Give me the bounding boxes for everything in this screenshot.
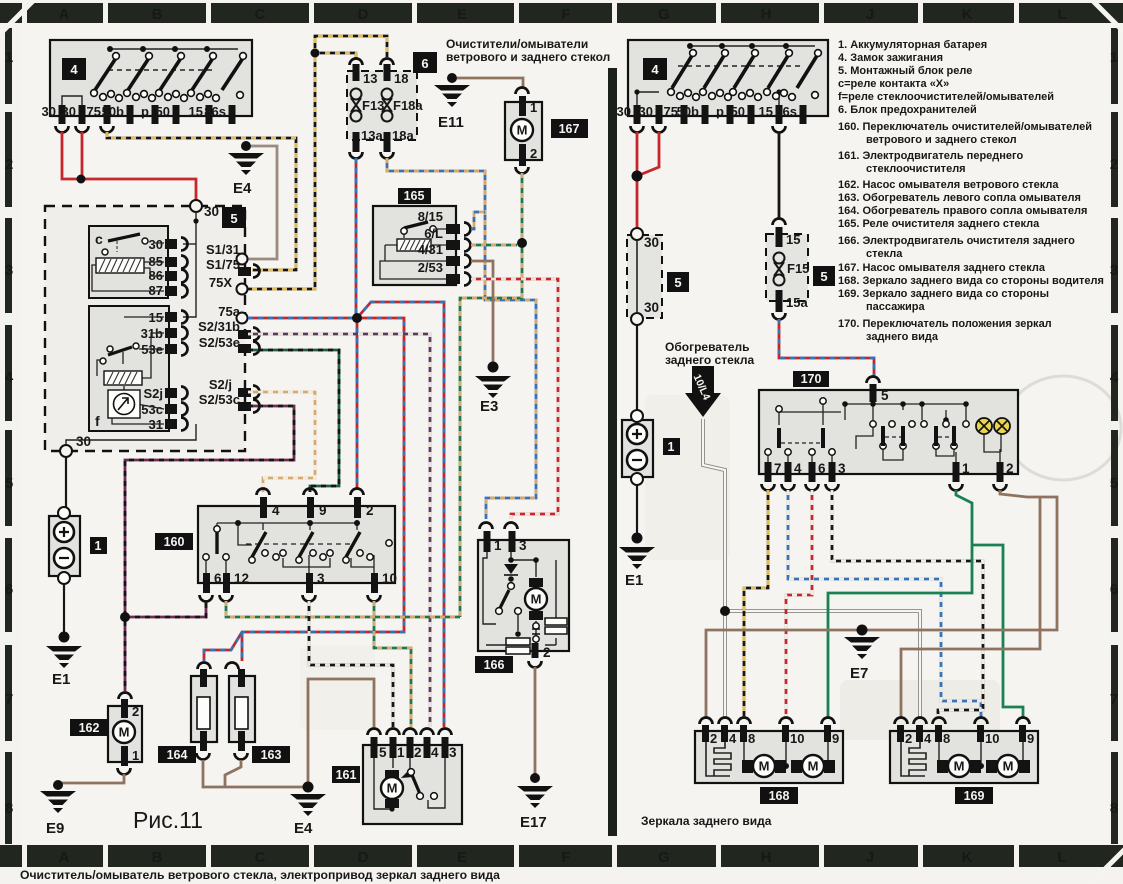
heated rear window arrow 10/L4 (685, 366, 721, 417)
internals (380, 229, 448, 279)
svg-text:S2j: S2j (143, 386, 163, 401)
svg-text:1. Аккумуляторная батарея: 1. Аккумуляторная батарея (838, 39, 987, 51)
svg-text:160: 160 (164, 535, 185, 549)
svg-text:8: 8 (5, 800, 13, 817)
svg-text:D: D (358, 849, 369, 866)
svg-text:F15: F15 (787, 261, 809, 276)
battery 1 (right) (622, 410, 680, 485)
svg-text:30: 30 (617, 104, 631, 119)
svg-text:4: 4 (5, 369, 14, 386)
wire 160 pin12 green/tan to 6/L node (226, 601, 460, 617)
svg-text:1: 1 (494, 538, 502, 553)
wire 167 pin2 green/tan down to 6/L then 160 pin10 (460, 173, 522, 617)
wire 75 black/yellow (107, 132, 296, 270)
svg-text:15a: 15a (786, 295, 808, 310)
fuse F18a (384, 64, 391, 81)
svg-text:8: 8 (943, 731, 950, 746)
svg-text:2: 2 (530, 146, 537, 161)
svg-text:2/53: 2/53 (418, 260, 443, 275)
relay c box (89, 226, 168, 298)
fuse F13 (353, 64, 360, 81)
svg-text:Обогреватель: Обогреватель (665, 340, 750, 354)
svg-text:164: 164 (167, 748, 188, 762)
driver mirror 168 (695, 718, 843, 805)
svg-text:8: 8 (748, 731, 755, 746)
wire 162 to E9 brown (58, 774, 124, 789)
terminals (446, 224, 460, 284)
wire 170 pin2 brown to mirrors pin2 (706, 490, 1057, 718)
svg-text:50b: 50b (102, 104, 124, 119)
svg-text:2: 2 (132, 704, 139, 719)
svg-text:Очистители/омыватели: Очистители/омыватели (446, 37, 588, 51)
svg-text:J: J (866, 6, 874, 23)
svg-text:Рис.11: Рис.11 (133, 807, 203, 833)
svg-text:E9: E9 (46, 820, 64, 837)
svg-text:6: 6 (5, 581, 13, 598)
ground E4 bottom (290, 794, 326, 837)
rear wiper relay 165 (373, 188, 471, 286)
svg-text:169: 169 (964, 789, 985, 803)
ground E17 (517, 773, 553, 831)
svg-text:5: 5 (1110, 475, 1118, 492)
svg-text:f: f (95, 413, 100, 429)
svg-text:6: 6 (818, 461, 826, 476)
svg-text:163. Обогреватель левого сопла: 163. Обогреватель левого сопла омывателя (838, 192, 1081, 204)
svg-text:170. Переключатель положения з: 170. Переключатель положения зеркал (838, 318, 1052, 330)
svg-text:S1/75: S1/75 (206, 257, 240, 272)
wire 30 from block5 to battery (65, 457, 67, 508)
svg-text:5: 5 (674, 275, 681, 290)
svg-text:1: 1 (1110, 49, 1118, 66)
svg-text:2: 2 (1006, 461, 1014, 476)
wire brown E11 to 167 (457, 78, 523, 88)
svg-text:S1/31: S1/31 (206, 242, 240, 257)
front wiper motor 161 (332, 729, 462, 825)
bottom terminals (765, 462, 1004, 482)
svg-text:2: 2 (5, 156, 13, 173)
wire 30 red from switch 4 (62, 132, 196, 201)
svg-text:E4: E4 (233, 180, 252, 197)
svg-text:L: L (1057, 849, 1066, 866)
wire 30 red (right) (637, 132, 659, 228)
svg-text:ветрового и заднего стекол: ветрового и заднего стекол (866, 134, 1017, 146)
svg-text:1: 1 (132, 748, 139, 763)
ignition switch 4 (right) (617, 40, 828, 133)
svg-text:E11: E11 (438, 114, 464, 131)
wire 166 pin2 brown to E17 (534, 667, 537, 776)
svg-text:4: 4 (729, 731, 737, 746)
svg-text:9: 9 (832, 731, 839, 746)
relay c internals (108, 234, 140, 241)
svg-text:168: 168 (769, 789, 790, 803)
svg-text:6/L: 6/L (424, 226, 443, 241)
svg-text:стекла: стекла (866, 248, 903, 260)
svg-text:E: E (457, 6, 467, 23)
fuse box 6 (347, 52, 437, 159)
svg-text:заднего вида: заднего вида (866, 331, 939, 343)
fuse column 5 (right, 30-30) (627, 228, 689, 325)
relay f box (89, 306, 169, 431)
svg-text:1: 1 (5, 49, 13, 66)
svg-text:15: 15 (189, 104, 203, 119)
paper texture blobs (60, 300, 1000, 740)
svg-text:75: 75 (87, 104, 101, 119)
svg-text:162. Насос омывателя ветрового: 162. Насос омывателя ветрового стекла (838, 179, 1059, 191)
svg-text:1: 1 (530, 100, 537, 115)
bottom terminals (203, 573, 378, 593)
svg-text:2: 2 (710, 731, 717, 746)
svg-text:E3: E3 (480, 398, 498, 415)
svg-text:E17: E17 (520, 814, 547, 831)
svg-text:5: 5 (820, 269, 827, 284)
nozzle heater 163 (226, 663, 291, 764)
wire 170 pin6 red/white to 168 pin10 (786, 490, 812, 718)
svg-text:7: 7 (5, 691, 13, 708)
svg-text:E7: E7 (850, 665, 868, 682)
svg-text:2: 2 (366, 503, 374, 518)
svg-text:G: G (658, 849, 670, 866)
svg-text:J: J (866, 849, 874, 866)
svg-text:C: C (255, 6, 266, 23)
wire 170 pin1 green to mirrors pin9 (828, 490, 1023, 718)
svg-text:161: 161 (336, 768, 357, 782)
svg-text:1: 1 (668, 440, 675, 454)
svg-text:f=реле стеклоочистителей/омыва: f=реле стеклоочистителей/омывателей (838, 91, 1054, 103)
svg-text:Очиститель/омыватель ветрового: Очиститель/омыватель ветрового стекла, э… (20, 868, 500, 882)
svg-text:15: 15 (759, 104, 773, 119)
wire 6/L green/tan (471, 244, 517, 247)
svg-text:15: 15 (786, 232, 800, 247)
internals (768, 402, 1001, 462)
svg-text:166: 166 (484, 658, 505, 672)
wire 160 pin3 black/white to 161 pin1 (309, 601, 393, 727)
svg-text:A: A (59, 849, 70, 866)
svg-text:3: 3 (838, 461, 846, 476)
rear washer pump 167 (505, 88, 588, 174)
svg-text:50b: 50b (677, 104, 699, 119)
svg-text:стеклоочистителя: стеклоочистителя (866, 163, 966, 175)
heater zigzag (706, 742, 731, 776)
svg-text:F18a: F18a (393, 98, 423, 113)
relay f internals (97, 317, 164, 424)
svg-text:30: 30 (644, 235, 659, 250)
bottom 30 node (60, 445, 72, 457)
svg-text:4: 4 (924, 731, 932, 746)
wire 4/31 brown to E3 (471, 261, 493, 362)
svg-text:5: 5 (230, 211, 237, 226)
node labels on right border (198, 242, 241, 407)
svg-text:4/31: 4/31 (418, 242, 443, 257)
svg-text:164. Обогреватель правого сопл: 164. Обогреватель правого сопла омывател… (838, 205, 1087, 217)
svg-text:166. Электродвигатель очистите: 166. Электродвигатель очистителя заднего (838, 235, 1075, 247)
svg-text:заднего стекла: заднего стекла (665, 353, 755, 367)
svg-text:S2/53e: S2/53e (199, 335, 240, 350)
svg-text:4: 4 (70, 62, 78, 77)
bottom bar cells (0, 845, 22, 867)
svg-text:S2/j: S2/j (209, 377, 232, 392)
svg-text:6. Блок предохранителей: 6. Блок предохранителей (838, 104, 977, 116)
svg-text:3: 3 (449, 745, 457, 760)
wire 160 pin10 green/tan to 161 pin2 (374, 601, 411, 727)
svg-text:12: 12 (234, 571, 249, 586)
internals (483, 552, 556, 645)
svg-text:p: p (141, 104, 149, 119)
svg-text:2: 2 (1110, 156, 1118, 173)
svg-text:13: 13 (363, 71, 377, 86)
svg-text:E1: E1 (625, 572, 643, 589)
svg-text:4. Замок зажигания: 4. Замок зажигания (838, 52, 943, 64)
internals (374, 758, 445, 809)
svg-text:169. Зеркало заднего вида со с: 169. Зеркало заднего вида со стороны (838, 288, 1049, 300)
svg-text:165: 165 (404, 189, 425, 203)
junction (77, 175, 86, 184)
svg-text:160. Переключатель очистителей: 160. Переключатель очистителей/омывателе… (838, 121, 1092, 133)
wire 18a blue/tan to 166 pin1 (387, 158, 536, 519)
svg-text:H: H (761, 849, 772, 866)
wire S2/53e green/black to 160 pin9 (248, 350, 339, 492)
svg-text:G: G (658, 6, 670, 23)
svg-text:9: 9 (319, 503, 327, 518)
svg-text:D: D (358, 6, 369, 23)
center divider bar (608, 68, 617, 836)
left bar cells (5, 3, 12, 23)
wire 170 pin4 blue/white to 169 pin10 (788, 490, 981, 718)
wire 2/53 red/white to 166 pin3 (471, 279, 558, 519)
svg-text:F: F (561, 6, 570, 23)
svg-text:161. Электродвигатель переднег: 161. Электродвигатель переднего (838, 150, 1023, 162)
svg-text:5. Монтажный блок реле: 5. Монтажный блок реле (838, 65, 972, 77)
svg-text:K: K (962, 849, 973, 866)
svg-text:167. Насос омывателя заднего с: 167. Насос омывателя заднего стекла (838, 262, 1046, 274)
svg-text:18a: 18a (392, 128, 414, 143)
svg-text:c: c (95, 231, 103, 247)
svg-text:30: 30 (76, 434, 91, 449)
wires 164/163 bottoms to E4 brown (203, 760, 308, 787)
nozzle heater 164 (158, 663, 217, 764)
ground E4 top (228, 141, 264, 197)
wire 161 pin5 brown to E4 (308, 679, 374, 787)
svg-text:с=реле контакта «Х»: с=реле контакта «Х» (838, 78, 949, 90)
ground E7 on brown wire (844, 625, 880, 683)
svg-text:3: 3 (519, 538, 527, 553)
grid letters top (59, 6, 1067, 23)
svg-text:E: E (457, 849, 467, 866)
svg-text:K: K (962, 6, 973, 23)
svg-text:86s: 86s (204, 104, 226, 119)
svg-text:50: 50 (731, 104, 745, 119)
wire to battery (right) (636, 325, 638, 411)
svg-text:6: 6 (421, 56, 428, 71)
svg-text:7: 7 (774, 461, 782, 476)
wire S2/j tan/white to 160 pin4 (248, 392, 315, 492)
svg-text:E4: E4 (294, 820, 313, 837)
grid letters bottom (59, 849, 1067, 866)
svg-text:4: 4 (1110, 369, 1119, 386)
svg-text:75X: 75X (209, 275, 232, 290)
svg-text:p: p (716, 104, 724, 119)
wiper switch 160 (155, 489, 397, 602)
wire S2/31b violet/white to 161 pin4 (248, 334, 430, 727)
terminals of 4 (59, 105, 236, 124)
svg-text:86s: 86s (775, 104, 797, 119)
svg-text:5: 5 (881, 388, 889, 403)
svg-text:7: 7 (1110, 691, 1118, 708)
svg-text:30: 30 (42, 104, 56, 119)
ground E1 (right) (619, 533, 655, 590)
wire 13a red/blue down to node (355, 158, 358, 320)
svg-text:8: 8 (1110, 800, 1118, 817)
ignition switch 4 (left) (42, 40, 252, 133)
svg-text:18: 18 (394, 71, 408, 86)
legend (838, 39, 1104, 343)
svg-text:3: 3 (317, 571, 325, 586)
inner wire from 30 down (66, 212, 196, 445)
wire 15a red/blue to 170 pin5 (779, 319, 874, 378)
ground E11 (434, 73, 470, 131)
wire 170 pin3 black/white to 169 pin8 (832, 490, 983, 718)
svg-text:B: B (152, 849, 163, 866)
wire 15 black to fuse F15 (778, 132, 781, 219)
svg-text:163: 163 (261, 748, 282, 762)
svg-text:2: 2 (414, 745, 422, 760)
ground E9 (40, 780, 76, 837)
ground E3 (475, 362, 511, 416)
svg-text:S2/53c: S2/53c (199, 392, 240, 407)
wire S2/53c purple/black to 162 & 160 pin6 (125, 406, 294, 691)
right bar cells (1111, 28, 1118, 104)
svg-text:9: 9 (1027, 731, 1034, 746)
svg-text:3: 3 (1110, 262, 1118, 279)
svg-text:30: 30 (149, 237, 163, 252)
svg-text:10: 10 (790, 731, 804, 746)
svg-text:1: 1 (962, 461, 970, 476)
svg-text:H: H (761, 6, 772, 23)
svg-text:168. Зеркало заднего вида со с: 168. Зеркало заднего вида со стороны вод… (838, 275, 1104, 287)
svg-text:5: 5 (5, 475, 13, 492)
top bar cells (0, 3, 22, 23)
svg-text:S2/31b: S2/31b (198, 319, 240, 334)
wire 75X black/yellow to fuses (242, 36, 387, 289)
svg-text:170: 170 (801, 372, 822, 386)
svg-text:13a: 13a (361, 128, 383, 143)
svg-text:4: 4 (794, 461, 802, 476)
svg-text:F: F (561, 849, 570, 866)
svg-text:165. Реле очистителя заднего с: 165. Реле очистителя заднего стекла (838, 218, 1040, 230)
svg-text:6: 6 (214, 571, 222, 586)
ground E1 (left) (46, 632, 82, 689)
svg-text:2: 2 (543, 645, 551, 660)
mirror switch 170 (759, 371, 1018, 491)
svg-text:4: 4 (431, 745, 439, 760)
top terminals (260, 497, 361, 518)
svg-text:A: A (59, 6, 70, 23)
svg-text:5: 5 (379, 745, 387, 760)
passenger mirror 169 (890, 718, 1038, 805)
fuse F15 (766, 219, 835, 320)
svg-text:10: 10 (985, 731, 999, 746)
svg-text:ветрового и заднего стекол: ветрового и заднего стекол (446, 50, 610, 64)
motors (744, 742, 828, 766)
washer pump 162 (70, 693, 142, 775)
rear wiper motor 166 (475, 523, 569, 674)
wire 170 pin7 black/yellow to 168 pin8 (744, 490, 768, 718)
svg-text:3: 3 (5, 262, 13, 279)
battery 1 (left) (49, 507, 107, 584)
svg-text:L: L (1057, 6, 1066, 23)
relay block 5 (left) (45, 200, 260, 457)
wire 75a blue/red node (204, 302, 444, 727)
wire battery to E1 (63, 584, 65, 633)
svg-text:1: 1 (397, 745, 405, 760)
indicator lamps (976, 418, 992, 434)
wire S1/31 grey to E4 (247, 146, 277, 259)
internals (206, 523, 374, 573)
svg-text:50: 50 (156, 104, 170, 119)
svg-text:167: 167 (559, 122, 580, 136)
svg-text:6: 6 (1110, 581, 1118, 598)
svg-text:4: 4 (272, 503, 280, 518)
svg-text:30: 30 (644, 300, 659, 315)
svg-text:10: 10 (382, 571, 397, 586)
svg-text:1: 1 (95, 539, 102, 553)
svg-text:30: 30 (62, 104, 76, 119)
svg-text:30: 30 (204, 204, 219, 219)
wire white from arrow to mirrors pin4 (703, 419, 920, 718)
svg-text:пассажира: пассажира (866, 301, 926, 313)
svg-text:Зеркала заднего вида: Зеркала заднего вида (641, 814, 772, 828)
wire 8/15 tan/blue (471, 212, 485, 229)
switch internals (62, 49, 238, 105)
svg-text:E1: E1 (52, 671, 70, 688)
svg-text:162: 162 (79, 721, 100, 735)
svg-text:8/15: 8/15 (418, 209, 443, 224)
svg-text:2: 2 (905, 731, 912, 746)
svg-text:30: 30 (639, 104, 653, 119)
svg-text:4: 4 (651, 62, 659, 77)
svg-text:C: C (255, 849, 266, 866)
svg-text:F13: F13 (362, 98, 384, 113)
svg-text:53c: 53c (141, 402, 163, 417)
svg-text:B: B (152, 6, 163, 23)
